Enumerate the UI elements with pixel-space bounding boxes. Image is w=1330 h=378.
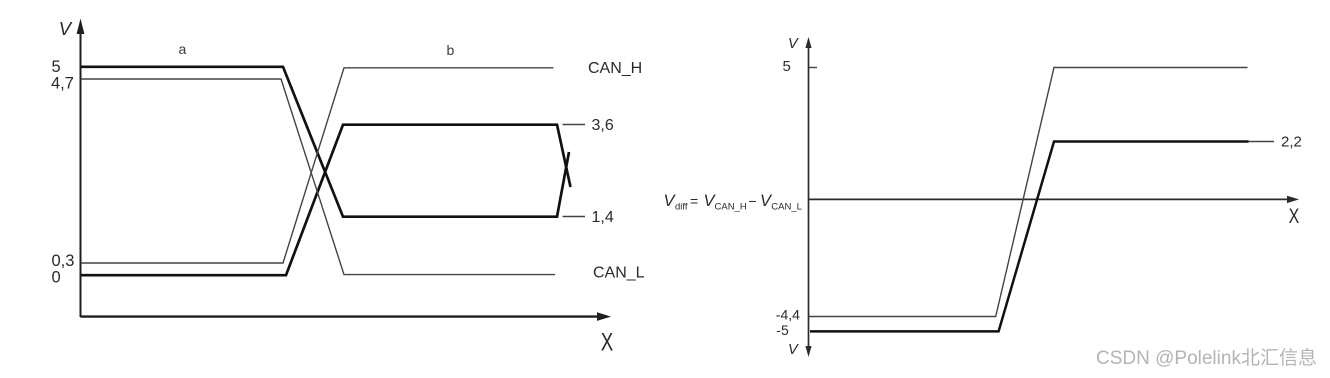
- svg-text:CAN_H: CAN_H: [715, 202, 747, 213]
- svg-text:-5: -5: [776, 322, 789, 338]
- svg-text:V: V: [59, 18, 73, 39]
- CAN_H thick waveform (0V recessive to 3,6V dominant): [81, 125, 571, 276]
- svg-text:V: V: [788, 342, 799, 358]
- svg-text:2,2: 2,2: [1281, 134, 1302, 151]
- Y axis (right chart, V up and down arrows): [805, 37, 811, 357]
- svg-text:1,4: 1,4: [592, 209, 614, 226]
- svg-text:CAN_L: CAN_L: [593, 265, 645, 282]
- svg-text:5: 5: [783, 58, 791, 75]
- svg-text:X: X: [601, 328, 614, 356]
- CAN_L thick waveform (5V recessive to 1,4V dominant): [81, 67, 569, 217]
- svg-text:5: 5: [52, 58, 61, 76]
- leader tick at 1,4: [563, 216, 586, 218]
- svg-text:V: V: [788, 36, 799, 52]
- svg-text:0,3: 0,3: [52, 252, 75, 270]
- X axis (right chart): [809, 196, 1300, 203]
- svg-text:diff: diff: [675, 202, 688, 213]
- tick at 5 (right): [809, 67, 817, 69]
- svg-text:CAN_L: CAN_L: [771, 202, 802, 213]
- Vdiff thin waveform (-4,4 to 5): [809, 68, 1248, 317]
- X axis (left chart): [81, 312, 612, 321]
- svg-text:−: −: [749, 193, 757, 209]
- Y axis (left chart, V): [77, 19, 85, 318]
- svg-text:4,7: 4,7: [51, 75, 74, 93]
- leader tick at 3,6: [563, 124, 586, 126]
- CAN_L thin waveform (4,7V to 0V): [81, 79, 555, 275]
- CAN_H thin waveform (0,3V to 5V): [81, 68, 554, 263]
- formula V_diff = V_CAN_H - V_CAN_L: [664, 192, 802, 213]
- svg-text:b: b: [447, 42, 455, 58]
- svg-text:CAN_H: CAN_H: [588, 60, 642, 77]
- svg-text:0: 0: [52, 268, 61, 286]
- Vdiff thick waveform (-5 to 2,2): [810, 142, 1249, 332]
- svg-text:CSDN @Polelink北汇信息: CSDN @Polelink北汇信息: [1096, 347, 1317, 369]
- svg-text:-4,4: -4,4: [776, 307, 800, 323]
- svg-text:X: X: [1289, 204, 1300, 228]
- svg-text:a: a: [179, 41, 187, 57]
- svg-text:=: =: [690, 193, 698, 209]
- svg-text:3,6: 3,6: [592, 117, 614, 134]
- leader tick at 2,2: [1249, 141, 1275, 143]
